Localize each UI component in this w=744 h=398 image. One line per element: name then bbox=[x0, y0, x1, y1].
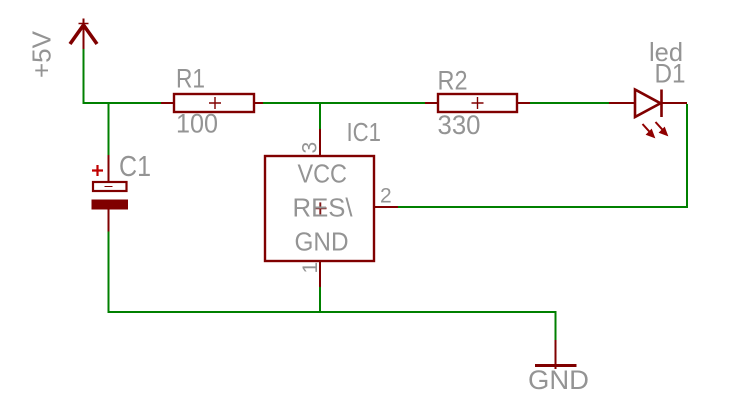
svg-text:RES\: RES\ bbox=[293, 193, 354, 223]
svg-text:3: 3 bbox=[299, 142, 322, 154]
wire: C1 top branch bbox=[108, 103, 110, 155]
svg-text:C1: C1 bbox=[119, 151, 151, 183]
svg-text:100: 100 bbox=[176, 109, 218, 139]
wire: IC1 pin3 branch bbox=[319, 103, 321, 129]
supply +5V symbol bbox=[70, 19, 97, 50]
IC IC1 box bbox=[265, 156, 374, 261]
wire: C1 bottom leg bbox=[108, 232, 110, 314]
svg-text:IC1: IC1 bbox=[347, 117, 382, 147]
pin 3 (VCC) bbox=[319, 129, 321, 156]
svg-text:R2: R2 bbox=[438, 66, 468, 96]
capacitor C1 bbox=[92, 155, 129, 232]
svg-text:GND: GND bbox=[295, 227, 349, 257]
wire: GND leg bbox=[555, 312, 557, 340]
pin 1 (GND) bbox=[319, 261, 321, 287]
LED arrow 2 bbox=[656, 122, 668, 136]
LED arrow 1 bbox=[643, 124, 655, 138]
svg-text:+5V: +5V bbox=[27, 30, 57, 78]
svg-text:2: 2 bbox=[380, 185, 392, 208]
ground GND symbol bbox=[535, 340, 577, 369]
wire: IC1 pin1 leg bbox=[319, 286, 321, 312]
svg-text:1: 1 bbox=[299, 262, 322, 274]
resistor R1 bbox=[161, 94, 263, 112]
svg-text:D1: D1 bbox=[655, 59, 686, 89]
svg-text:VCC: VCC bbox=[298, 158, 348, 188]
LED D1 bbox=[609, 90, 687, 118]
resistor R2 bbox=[425, 94, 530, 112]
wire: top horizontal +5V to R1 bbox=[83, 102, 162, 104]
wire: bottom bus bbox=[108, 311, 557, 313]
wire: LED cathode down right side bbox=[686, 104, 688, 207]
svg-text:R1: R1 bbox=[176, 64, 205, 94]
wire: pin2 horizontal bbox=[398, 206, 688, 208]
origin cross IC1 bbox=[314, 202, 327, 214]
svg-text:GND: GND bbox=[528, 365, 589, 395]
svg-text:330: 330 bbox=[438, 110, 481, 140]
pin 2 (RES) bbox=[374, 206, 398, 208]
wire: +5V vertical drop bbox=[83, 49, 85, 103]
wire: R1 to R2 bbox=[263, 102, 425, 104]
wire: R2 to LED bbox=[530, 102, 609, 104]
